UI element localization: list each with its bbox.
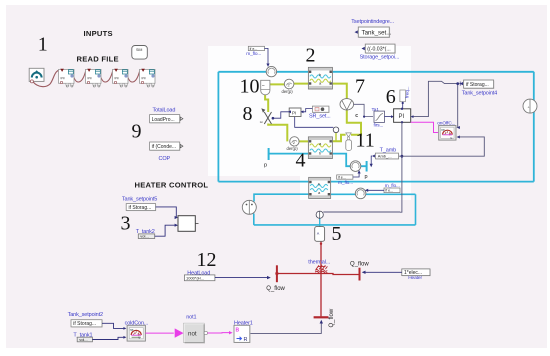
svg-text:^: ^	[317, 233, 320, 239]
comparator block 3	[178, 216, 199, 232]
compressor 7	[340, 99, 354, 110]
svg-text:10: 10	[240, 75, 260, 97]
pipe secondary top	[254, 194, 309, 201]
junction dot	[401, 155, 404, 158]
pipe secondary bottom	[254, 224, 416, 226]
pipe right	[533, 72, 535, 182]
svg-text:11: 11	[356, 129, 375, 151]
svg-text:c: c	[355, 113, 358, 119]
svg-text:if (Conde...: if (Conde...	[152, 144, 176, 150]
block Tank_set	[355, 27, 392, 38]
svg-text:m_flo...: m_flo...	[246, 51, 261, 57]
svg-text:B: B	[236, 328, 240, 334]
svg-text:SR_set...: SR_set...	[309, 114, 331, 120]
pipe valve to evaporator	[268, 124, 308, 142]
pipe secondary right	[415, 194, 417, 225]
combiTimeTable block T1	[59, 69, 75, 87]
pipe HX2 to receiver	[270, 83, 309, 86]
wire setpoint5 to comparator	[156, 207, 177, 218]
svg-text:6: 6	[386, 86, 396, 108]
stub block5	[319, 218, 321, 226]
combiTimeTable block T4	[140, 69, 156, 87]
svg-text:if e...: if e...	[385, 189, 393, 193]
svg-text:p: p	[264, 163, 267, 169]
svg-text:Heater: Heater	[408, 275, 422, 281]
block firstOrder	[374, 111, 385, 122]
svg-text:PI: PI	[292, 110, 296, 115]
block vol (T_tank1)	[77, 337, 92, 342]
svg-text:if Storag...: if Storag...	[466, 82, 489, 88]
wire magenta PI6 to onOffC	[411, 122, 438, 132]
heat exchanger HX4 (evaporator)	[308, 137, 332, 159]
white model panel	[208, 46, 411, 176]
block vol (T_tank2)	[138, 234, 154, 239]
svg-text:freq...: freq...	[405, 86, 410, 98]
pipe HX2 right to compressor	[332, 84, 346, 99]
wire SR_set to PI	[303, 109, 313, 112]
svg-text:1000*(H...: 1000*(H...	[186, 276, 204, 281]
SIM block	[132, 46, 148, 60]
junction dot	[275, 272, 278, 275]
svg-text:ω: ω	[260, 120, 263, 124]
wire T_tank1 to coldCon	[92, 337, 124, 339]
pipe receiver down to valve	[265, 94, 268, 113]
wire T_tank2 to comparator	[155, 225, 177, 236]
block if e (pump P3 control)	[337, 170, 361, 186]
svg-text:3: 3	[121, 212, 131, 234]
wire Heater1 to Q_flow bottom	[250, 323, 321, 334]
temperature sensor T1	[242, 200, 256, 214]
svg-text:7: 7	[355, 76, 365, 98]
pipe top	[218, 71, 533, 73]
block if e (pump P2 control)	[365, 183, 400, 193]
pipe HX4 water right	[332, 154, 366, 167]
pipe compressor suction	[347, 110, 361, 135]
pipe secondary left down	[253, 214, 255, 225]
svg-text:+: +	[528, 106, 530, 110]
block 1*elec Heater	[402, 269, 431, 276]
block SR_set	[312, 106, 329, 113]
svg-text:Tank_setpoint2: Tank_setpoint2	[68, 312, 103, 318]
wire m_flo to pump P1	[246, 46, 269, 67]
suction valve 11	[346, 133, 351, 140]
heat exchanger HX3 (storage hx)	[309, 177, 331, 198]
svg-text:1: 1	[38, 34, 48, 56]
svg-text:4: 4	[296, 149, 306, 171]
wire sensor to PI vertical	[323, 211, 400, 213]
terminal p right	[366, 161, 368, 172]
svg-text:12: 12	[197, 249, 217, 271]
file reader block	[29, 68, 44, 83]
block if Storag (setpoint2)	[71, 320, 103, 328]
block not	[184, 323, 208, 343]
pipe bottom	[218, 181, 533, 183]
pump P3 (HX4 out)	[350, 161, 361, 172]
svg-text:ne...: ne...	[130, 328, 136, 332]
node bar left Q_flow	[276, 265, 278, 282]
controller PI 6	[394, 108, 411, 124]
svg-text:m_flo...: m_flo...	[385, 183, 400, 189]
wire elec heater to Q_flow	[364, 271, 402, 273]
svg-text:u: u	[139, 336, 141, 340]
svg-text:9: 9	[132, 120, 142, 142]
svg-text:m_flo...: m_flo...	[338, 180, 353, 186]
block Storage_setpoint expression	[362, 44, 396, 54]
expansion valve 8	[260, 108, 272, 124]
svg-text:der(p): der(p)	[282, 89, 294, 94]
controller PI small	[289, 108, 301, 117]
block 5 (heat port adaptor)	[315, 227, 325, 242]
svg-text:not1: not1	[186, 314, 196, 320]
svg-text:Amb_...: Amb_...	[378, 154, 392, 159]
pump P4 right	[523, 99, 537, 113]
svg-text:if Storag...: if Storag...	[73, 321, 96, 327]
block 1000*(H	[184, 275, 215, 281]
svg-text:if Storag...: if Storag...	[129, 205, 152, 211]
svg-text:u: u	[451, 136, 453, 140]
heat port dot	[320, 243, 322, 245]
block if Storag (setpoint5)	[126, 204, 156, 211]
sensor T mini (block5 top)	[316, 211, 323, 218]
wire compressor to firstorder	[354, 104, 374, 116]
pipe HX4 water left	[269, 153, 309, 155]
block coldCon	[127, 325, 145, 341]
svg-text:TotalLoad: TotalLoad	[153, 107, 176, 113]
combiTimeTable block T2	[86, 69, 102, 87]
heat exchanger HX2 (condenser)	[308, 67, 332, 89]
thermal capacitor	[315, 265, 327, 273]
wire chain read file	[33, 70, 139, 86]
pump P2 (secondary)	[355, 188, 366, 199]
wire tank_setpoint4 net	[413, 81, 460, 116]
wire thermal horizontal	[277, 274, 360, 275]
wire coldCon to not1	[145, 332, 173, 334]
svg-text:R: R	[244, 337, 248, 343]
sensor der(p) 1	[282, 79, 294, 94]
svg-text:Tank_setpoint5: Tank_setpoint5	[122, 197, 157, 203]
svg-text:HEATER CONTROL: HEATER CONTROL	[135, 181, 209, 190]
receiver tank 10	[261, 80, 270, 95]
svg-text:2: 2	[306, 45, 316, 67]
wire Amb to p terminal	[370, 156, 373, 165]
combiTimeTable block T3	[113, 69, 129, 87]
svg-text:SIM: SIM	[136, 48, 142, 52]
wire onOffC feedback loop	[399, 137, 485, 156]
block onOffC	[439, 126, 456, 141]
pipe left	[217, 72, 219, 182]
svg-text:Storage_setpoi...: Storage_setpoi...	[360, 55, 400, 61]
bottle 11	[346, 140, 352, 151]
wire firstorder to PI6	[385, 116, 393, 118]
svg-text:Q_flow: Q_flow	[266, 286, 285, 292]
svg-text:1*elec...: 1*elec...	[404, 270, 422, 276]
wire PI6 down to tank sensor	[400, 122, 402, 212]
svg-text:ne...: ne...	[441, 128, 447, 132]
wire sensor p1 to PI	[295, 117, 334, 128]
svg-text:PI: PI	[399, 114, 405, 120]
terminal p left	[268, 148, 270, 160]
svg-text:Tank_setpoint4: Tank_setpoint4	[462, 91, 497, 97]
sensor der(p) 2	[287, 137, 300, 151]
svg-text:if e...: if e...	[250, 47, 258, 51]
svg-text:COP: COP	[159, 156, 171, 162]
svg-text:READ FILE: READ FILE	[77, 55, 119, 64]
block freq output	[400, 86, 410, 108]
wire thermal vertical	[320, 241, 322, 316]
wire not1 to Heater1	[208, 332, 230, 334]
block if Storag (setpoint4)	[460, 80, 495, 89]
pipe bottle to HX4	[332, 135, 345, 142]
svg-text:8: 8	[243, 103, 253, 125]
svg-text:if e...: if e...	[338, 175, 346, 179]
wire HeatLoad to Q_flow	[215, 277, 269, 279]
block Heater1	[234, 325, 250, 343]
block LoadPro	[150, 115, 183, 124]
sensor pressure p1	[333, 127, 339, 133]
node bar right Q_flow	[359, 268, 361, 281]
svg-text:vol...: vol...	[140, 234, 148, 239]
svg-text:not: not	[188, 331, 197, 338]
stub sensor p1	[335, 132, 337, 141]
wire setpoint4 to onOffC	[457, 84, 459, 128]
block if(Conde	[150, 142, 183, 151]
svg-text:p: p	[365, 174, 368, 180]
svg-text:Q_flow: Q_flow	[329, 308, 335, 327]
svg-text:Q_flow: Q_flow	[350, 262, 369, 268]
wire setpoint2 to coldCon	[102, 323, 125, 328]
svg-text:thermal...: thermal...	[308, 260, 330, 266]
port arrows onOffC	[457, 126, 460, 129]
svg-text:firs...: firs...	[374, 122, 384, 128]
svg-text:vol...: vol...	[79, 337, 87, 342]
pump P1 top	[266, 66, 276, 76]
svg-text:LoadPro...: LoadPro...	[152, 117, 175, 123]
svg-text:Tank_set...: Tank_set...	[362, 30, 392, 37]
svg-text:((-0.03*(...: ((-0.03*(...	[367, 47, 390, 53]
gain triangle	[175, 328, 184, 337]
svg-text:INPUTS: INPUTS	[84, 29, 113, 38]
svg-text:5: 5	[332, 223, 342, 245]
pipe secondary return	[331, 193, 416, 195]
node bar bottom Q_flow	[314, 316, 329, 318]
svg-text:Tsetpointindegre...: Tsetpointindegre...	[351, 19, 394, 25]
wire PI to valve	[273, 112, 289, 118]
block Amb	[372, 153, 399, 159]
